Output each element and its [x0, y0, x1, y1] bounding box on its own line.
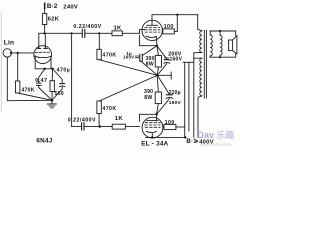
- wire secondary bottom rail: [210, 54, 236, 57]
- wire B3 vertical: [193, 53, 195, 137]
- svg-text:470K: 470K: [21, 88, 34, 94]
- transformer T1 secondary A: [210, 31, 212, 57]
- svg-text:Lin: Lin: [4, 40, 15, 47]
- svg-text:EL - 34A: EL - 34A: [141, 140, 168, 147]
- wire midpoint T stub: [157, 72, 171, 79]
- wire diamond1 right arms: [157, 46, 167, 76]
- scan edge artifact: [0, 12, 2, 112]
- wire B+1 rail: [146, 136, 186, 138]
- svg-text:0.22/400V: 0.22/400V: [68, 117, 96, 123]
- capacitor 0.47: [35, 69, 52, 101]
- wire input to grid: [11, 52, 34, 54]
- label B+1 400V: [186, 139, 213, 145]
- transformer T1 primary: [194, 15, 202, 138]
- tube EL-34A upper V2: [142, 20, 162, 40]
- wire cathode V2 to node: [155, 37, 158, 46]
- svg-text:160V: 160V: [169, 100, 182, 106]
- svg-text:1K: 1K: [115, 116, 124, 122]
- wire plate V2 to top rail: [152, 15, 198, 21]
- svg-text:8W: 8W: [144, 95, 152, 101]
- node lower grid junction: [99, 125, 101, 127]
- node midpoint: [156, 74, 159, 77]
- resistor 390 8W lower: [144, 89, 161, 104]
- wire screen V2 to 100: [161, 30, 164, 32]
- svg-text:Dav乐趣: Dav乐趣: [198, 129, 235, 140]
- tube EL-34A lower V3: [142, 117, 163, 138]
- svg-text:8W: 8W: [146, 61, 154, 67]
- node junction upper 470K: [98, 32, 100, 34]
- wire left wrap V2: [139, 35, 157, 46]
- node B+2 label: [44, 3, 78, 11]
- svg-text:160V: 160V: [123, 55, 134, 60]
- capacitor 220u/160V lower: [166, 90, 182, 106]
- svg-text:470K: 470K: [102, 106, 116, 112]
- wire diamond1 middle arms: [157, 46, 159, 76]
- node cathode V2: [156, 45, 158, 47]
- wire plate V3 lead: [156, 114, 158, 120]
- resistor 100 upper: [163, 24, 175, 34]
- wire B+2 to 62K: [44, 5, 46, 13]
- svg-text:220µ: 220µ: [169, 90, 181, 96]
- wire 470K upper leads: [99, 33, 157, 75]
- capacitor 1u/160V: [123, 51, 142, 61]
- wire cathode leads V1: [35, 56, 52, 69]
- node secondary top: [219, 30, 221, 32]
- resistor 470K upper-grid: [97, 49, 117, 59]
- node input grid junction: [17, 52, 19, 54]
- node cathode left: [44, 68, 46, 70]
- wire 100 to top rail: [174, 15, 177, 32]
- wire left wrap V3: [140, 114, 157, 121]
- svg-text:240V: 240V: [63, 4, 78, 10]
- svg-text:B·2: B·2: [47, 3, 58, 10]
- wire top connector: [183, 61, 194, 63]
- capacitor 220u/160V upper: [164, 52, 183, 64]
- svg-text:62K: 62K: [48, 16, 60, 22]
- node screen rail junction: [176, 14, 178, 16]
- svg-text:0.22/400V: 0.22/400V: [73, 24, 101, 30]
- node diamond2 bottom: [155, 113, 157, 115]
- wire secondary top rail: [210, 31, 236, 36]
- svg-text:1K: 1K: [114, 25, 123, 31]
- capacitor 0.22/400V lower: [68, 117, 96, 130]
- wire lower grid rail: [84, 126, 140, 128]
- node secondary bottom: [219, 56, 221, 58]
- wire B1 vertical: [184, 62, 186, 137]
- capacitor 0.22/400V upper: [73, 24, 101, 37]
- tube 6N4J V1: [34, 46, 52, 64]
- resistor 390 8W upper: [146, 56, 162, 68]
- resistor 1K lower: [112, 116, 125, 129]
- node plate-rail junction: [44, 32, 46, 34]
- node junction to lower coupling line: [71, 32, 73, 34]
- wire plate rail: [39, 32, 140, 34]
- ground: [47, 100, 56, 108]
- resistor 470K lower-grid: [97, 101, 117, 114]
- resistor 560: [50, 69, 64, 101]
- resistor 100 lower: [164, 120, 176, 129]
- transformer T1 core: [204, 31, 206, 99]
- svg-text:470K: 470K: [102, 53, 116, 59]
- resistor 62K: [42, 14, 59, 25]
- svg-text:100: 100: [165, 120, 175, 126]
- wire grid jog V2: [139, 30, 144, 34]
- svg-text:wansthifi.com: wansthifi.com: [200, 142, 232, 147]
- wire diamond1 left arms: [140, 46, 157, 75]
- input jack: [3, 49, 12, 57]
- wire cathode V3 to B1 rail: [151, 134, 153, 138]
- transformer T1 secondary B: [220, 31, 222, 57]
- wire 62K to plate rail: [44, 25, 46, 34]
- wire screen V3 to 100: [163, 126, 164, 128]
- svg-text:B·1: B·1: [186, 139, 197, 145]
- node B+1 junction: [184, 136, 186, 138]
- wire long vertical to lower grid rail: [72, 33, 82, 126]
- wire 100 to B1 vertical: [176, 126, 185, 128]
- wire plate leads inside: [39, 46, 46, 49]
- wire 470K lower leads: [99, 75, 157, 126]
- resistor 470K input: [16, 53, 52, 100]
- svg-text:6N4J: 6N4J: [36, 137, 52, 144]
- wire B2 vertical: [188, 62, 190, 131]
- node ground junction: [51, 99, 54, 102]
- svg-text:160V: 160V: [170, 56, 183, 62]
- speaker: [229, 36, 237, 54]
- node cathode V3: [151, 136, 153, 138]
- wire jack sleeve to ground: [7, 57, 52, 101]
- capacitor 470u: [52, 68, 70, 101]
- svg-text:100: 100: [164, 24, 174, 30]
- node cathode right: [51, 68, 53, 70]
- resistor 1K upper: [112, 25, 122, 35]
- watermark: [198, 129, 235, 147]
- wire diamond2 right arms: [157, 75, 170, 114]
- wire plate leads V1: [39, 33, 46, 48]
- wire diamond2 middle arms: [157, 75, 159, 114]
- svg-text:470µ: 470µ: [57, 68, 71, 74]
